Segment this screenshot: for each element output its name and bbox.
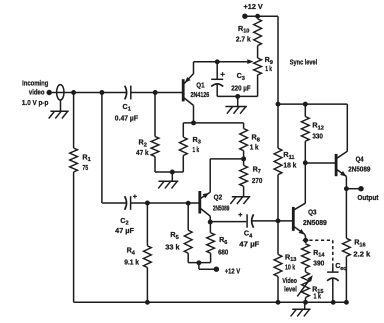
wire R10 stub (257, 16, 259, 19)
label R15 1k (312, 284, 323, 300)
capacitor C1 (125, 86, 131, 100)
transistor Q2 2N5089 (200, 191, 210, 222)
transistor Q4 2N5089 (336, 104, 347, 189)
node F (Q1 collector) (191, 120, 196, 125)
node A (input/R1 junction) (71, 90, 76, 95)
wire R7 bottom (243, 186, 245, 197)
svg-text:75: 75 (82, 163, 88, 172)
wire K to R13 (277, 221, 279, 255)
svg-text:1 k: 1 k (250, 143, 259, 152)
wire R16 top (345, 189, 347, 239)
node H (R10 top) (255, 14, 260, 19)
node N (R16 ground rail) (344, 300, 349, 305)
svg-text:2N5089: 2N5089 (303, 218, 327, 227)
resistor R4 9.1k (144, 246, 152, 268)
svg-text:18 k: 18 k (283, 160, 296, 169)
node T (R5/R6 +12V junction) (196, 260, 201, 265)
svg-text:4: 4 (132, 250, 136, 256)
label R10 2.7k (236, 24, 251, 44)
wire R16 bottom (345, 256, 347, 302)
svg-text:220 µF: 220 µF (231, 84, 251, 93)
label Sync level (290, 60, 317, 67)
wire R15 bottom (305, 298, 307, 303)
label +12V bottom (225, 267, 241, 276)
wire R4 bottom (146, 268, 148, 303)
node L (R12/Q3 collector/Q4 base) (303, 160, 308, 165)
wire ground rail (74, 301, 347, 303)
svg-text:eq: eq (340, 266, 347, 272)
wire R6 top (209, 222, 211, 233)
node Q (R4 top) (145, 201, 150, 206)
label R1 75 (82, 152, 90, 172)
node J (R12 top) (303, 102, 308, 107)
label R14 390 (313, 248, 325, 268)
svg-text:5: 5 (176, 235, 179, 241)
svg-text:1.0 V p-p: 1.0 V p-p (22, 98, 49, 107)
wire rail y104 (278, 103, 347, 105)
node P (Q2 bottom / R6 / C4) (208, 220, 213, 225)
wire R3 top (182, 123, 184, 137)
svg-text:level: level (284, 285, 297, 294)
wire R8 bottom (243, 151, 245, 159)
svg-text:2.7 k: 2.7 k (236, 34, 251, 43)
wire R1 bottom to ground rail (73, 172, 75, 302)
potentiometer R15 1k (Video level) (302, 272, 310, 298)
wire output stub (346, 188, 361, 190)
svg-text:video: video (29, 88, 45, 97)
svg-text:680: 680 (218, 248, 228, 257)
svg-text:Q3: Q3 (308, 208, 317, 217)
wire R14-R15 (305, 268, 307, 272)
wire C2 to Q2 base (131, 202, 199, 204)
label Q1 2N4126 (191, 81, 210, 99)
wire R1 top (73, 93, 75, 149)
wiper arrow of R9 (247, 59, 253, 64)
label R9 1k (265, 55, 273, 73)
resistor R5 33k (184, 230, 192, 253)
potentiometer R9 1k (Sync level) (254, 58, 262, 75)
node M (Q4 emitter / output) (344, 186, 349, 191)
svg-text:47 k: 47 k (136, 148, 149, 157)
wire R12 bottom (304, 141, 306, 163)
wire input row (49, 92, 126, 94)
node I (R11/R12 rail) (276, 102, 281, 107)
svg-text:10 k: 10 k (285, 263, 295, 272)
wire input drop to C2 (102, 93, 126, 204)
capacitor C2 47uF (125, 196, 131, 210)
node C (C1/R2/Q1 base) (153, 90, 158, 95)
wire R3 bottom (172, 156, 183, 173)
node X (rail/R13) (276, 300, 281, 305)
resistor R1 (70, 148, 78, 172)
node V (R15 ground rail) (303, 300, 308, 305)
svg-text:1 k: 1 k (314, 291, 322, 300)
wire C3 bottom row (217, 95, 257, 97)
svg-text:2N5089: 2N5089 (213, 203, 230, 212)
node B (input/C2 junction) (99, 90, 104, 95)
wire dashed to Ceq (309, 240, 332, 266)
wire R9 bottom (257, 75, 259, 96)
ground (C3) (225, 96, 247, 113)
transistor Q3 2N5089 (293, 163, 305, 237)
svg-text:6: 6 (224, 240, 227, 246)
svg-text:2N4126: 2N4126 (191, 90, 210, 99)
node S (R4 ground rail) (145, 300, 150, 305)
label R4 9.1k (124, 246, 139, 267)
wire +12V rail (245, 16, 278, 104)
label Incoming video 1.0 V p-p (22, 78, 49, 107)
label Q2 2N5089 (213, 193, 230, 213)
resistor R7 270 (240, 165, 248, 186)
label R12 330 (312, 121, 323, 141)
wire R12 top (304, 104, 306, 116)
node U (Q3 emitter diamond) (302, 237, 308, 244)
resistor R10 2.7k (254, 19, 262, 46)
label R3 1k (193, 135, 201, 154)
wire R2 bottom (155, 157, 172, 173)
wire R6 bottom (210, 253, 212, 262)
node +12V top terminal (242, 14, 247, 19)
polarity + of C2 (133, 194, 137, 198)
svg-text:0.47 µF: 0.47 µF (115, 113, 139, 122)
svg-text:4: 4 (249, 233, 253, 239)
label R5 33k (165, 230, 179, 252)
node O (R8/R7/Q2 junction) (241, 156, 246, 161)
wire R7 top (243, 159, 245, 166)
label Output (357, 193, 379, 202)
label C1 0.47uF (115, 102, 139, 123)
svg-text:9.1 k: 9.1 k (124, 257, 139, 266)
resistor R2 (151, 137, 159, 157)
node output terminal (358, 186, 363, 191)
svg-text:Sync level: Sync level (290, 60, 317, 67)
node D (R2/R3 ground junction) (170, 170, 175, 175)
label R6 680 (218, 235, 228, 256)
wire R2 top (154, 93, 156, 137)
svg-text:270: 270 (252, 176, 262, 185)
label Video level (282, 276, 297, 294)
polarity + of C4 (238, 213, 242, 217)
resistor R3 (179, 137, 187, 155)
wire Q2 to C4 (210, 221, 246, 223)
wire R8 top (243, 123, 245, 129)
node K (Q3 base node) (276, 218, 281, 223)
wire R4 top (146, 203, 148, 246)
wire R5 bottom (188, 253, 210, 262)
wire Q2 top row (210, 159, 243, 192)
wire R11 bottom (277, 175, 279, 221)
label Ceq (335, 261, 347, 272)
label R11 18k (283, 150, 296, 169)
resistor R16 2.2k (343, 238, 351, 256)
label C3 220uF (231, 71, 251, 92)
wire +12V stub (199, 263, 217, 269)
wire Q4 base row (305, 162, 335, 164)
svg-text:16: 16 (359, 243, 365, 249)
node +12V bottom terminal (214, 267, 219, 272)
label R7 270 (252, 164, 262, 185)
wire supply column upper (277, 104, 279, 148)
capacitor Ceq (equivalent) (327, 267, 339, 303)
label C2 47uF (115, 216, 134, 235)
ground (input connector) (49, 100, 69, 119)
resistor R14 390 (photocell equivalent) (302, 244, 310, 268)
svg-text:Q1: Q1 (196, 81, 204, 90)
wire C4 to Q3 base (252, 220, 293, 222)
label R8 1k (250, 133, 260, 152)
connector J1 (input bushing) (57, 85, 64, 100)
resistor R8 1k (240, 129, 248, 151)
wire C1 to Q1 base (131, 92, 182, 94)
ground (R7) (230, 196, 250, 204)
wire Q1 emitter to R9 wiper (194, 61, 250, 63)
svg-text:+12 V: +12 V (244, 2, 264, 11)
svg-text:+12 V: +12 V (225, 267, 241, 276)
svg-text:3: 3 (242, 76, 245, 82)
node R (R5 top / Q2 base) (186, 201, 191, 206)
node W (Ceq ground rail) (331, 300, 336, 305)
resistor R11 18k (274, 148, 282, 175)
label R2 47k (136, 138, 149, 157)
resistor R6 680 (207, 233, 215, 253)
node input terminal (Incoming video) (47, 90, 52, 95)
svg-text:47 µF: 47 µF (115, 226, 134, 235)
label Q3 2N5089 (303, 208, 327, 227)
svg-text:47 µF: 47 µF (239, 240, 260, 249)
svg-text:1 k: 1 k (193, 145, 200, 154)
svg-text:1 k: 1 k (265, 64, 272, 73)
transistor Q1 2N4126 (183, 62, 193, 123)
ground (R2/R3) (158, 172, 178, 188)
label C4 47uF (239, 229, 260, 249)
svg-text:1: 1 (128, 107, 131, 113)
wire R10-R9 (257, 46, 259, 58)
polarity + of C3 (220, 72, 224, 76)
svg-text:330: 330 (312, 131, 323, 140)
capacitor C3 220uF (211, 62, 223, 97)
svg-text:Output: Output (357, 193, 379, 202)
svg-text:390: 390 (313, 259, 324, 268)
ground (main rail) (291, 302, 311, 316)
wire R5 top (187, 203, 189, 230)
label R13 10k (285, 252, 296, 271)
node G (C3 ground junction) (235, 94, 240, 99)
wiper arrow of R15 (297, 275, 313, 296)
svg-text:2.2 k: 2.2 k (353, 249, 370, 258)
svg-text:Incoming: Incoming (22, 78, 48, 87)
svg-text:7: 7 (258, 169, 261, 175)
svg-text:2N5089: 2N5089 (348, 165, 370, 174)
resistor R13 10k (274, 254, 282, 276)
wire Q1 collector row (183, 122, 243, 124)
resistor R12 330 (301, 117, 309, 142)
wire R13 bottom (277, 277, 279, 303)
label +12V top (244, 2, 264, 11)
svg-text:Q2: Q2 (214, 193, 223, 202)
svg-text:33 k: 33 k (165, 243, 179, 252)
node E (emitter rail / C3 top) (215, 59, 220, 64)
capacitor C4 47uF (247, 214, 254, 227)
label R16 2.2k (353, 238, 370, 259)
label Q4 2N5089 (348, 154, 370, 173)
svg-text:Q4: Q4 (356, 154, 364, 163)
